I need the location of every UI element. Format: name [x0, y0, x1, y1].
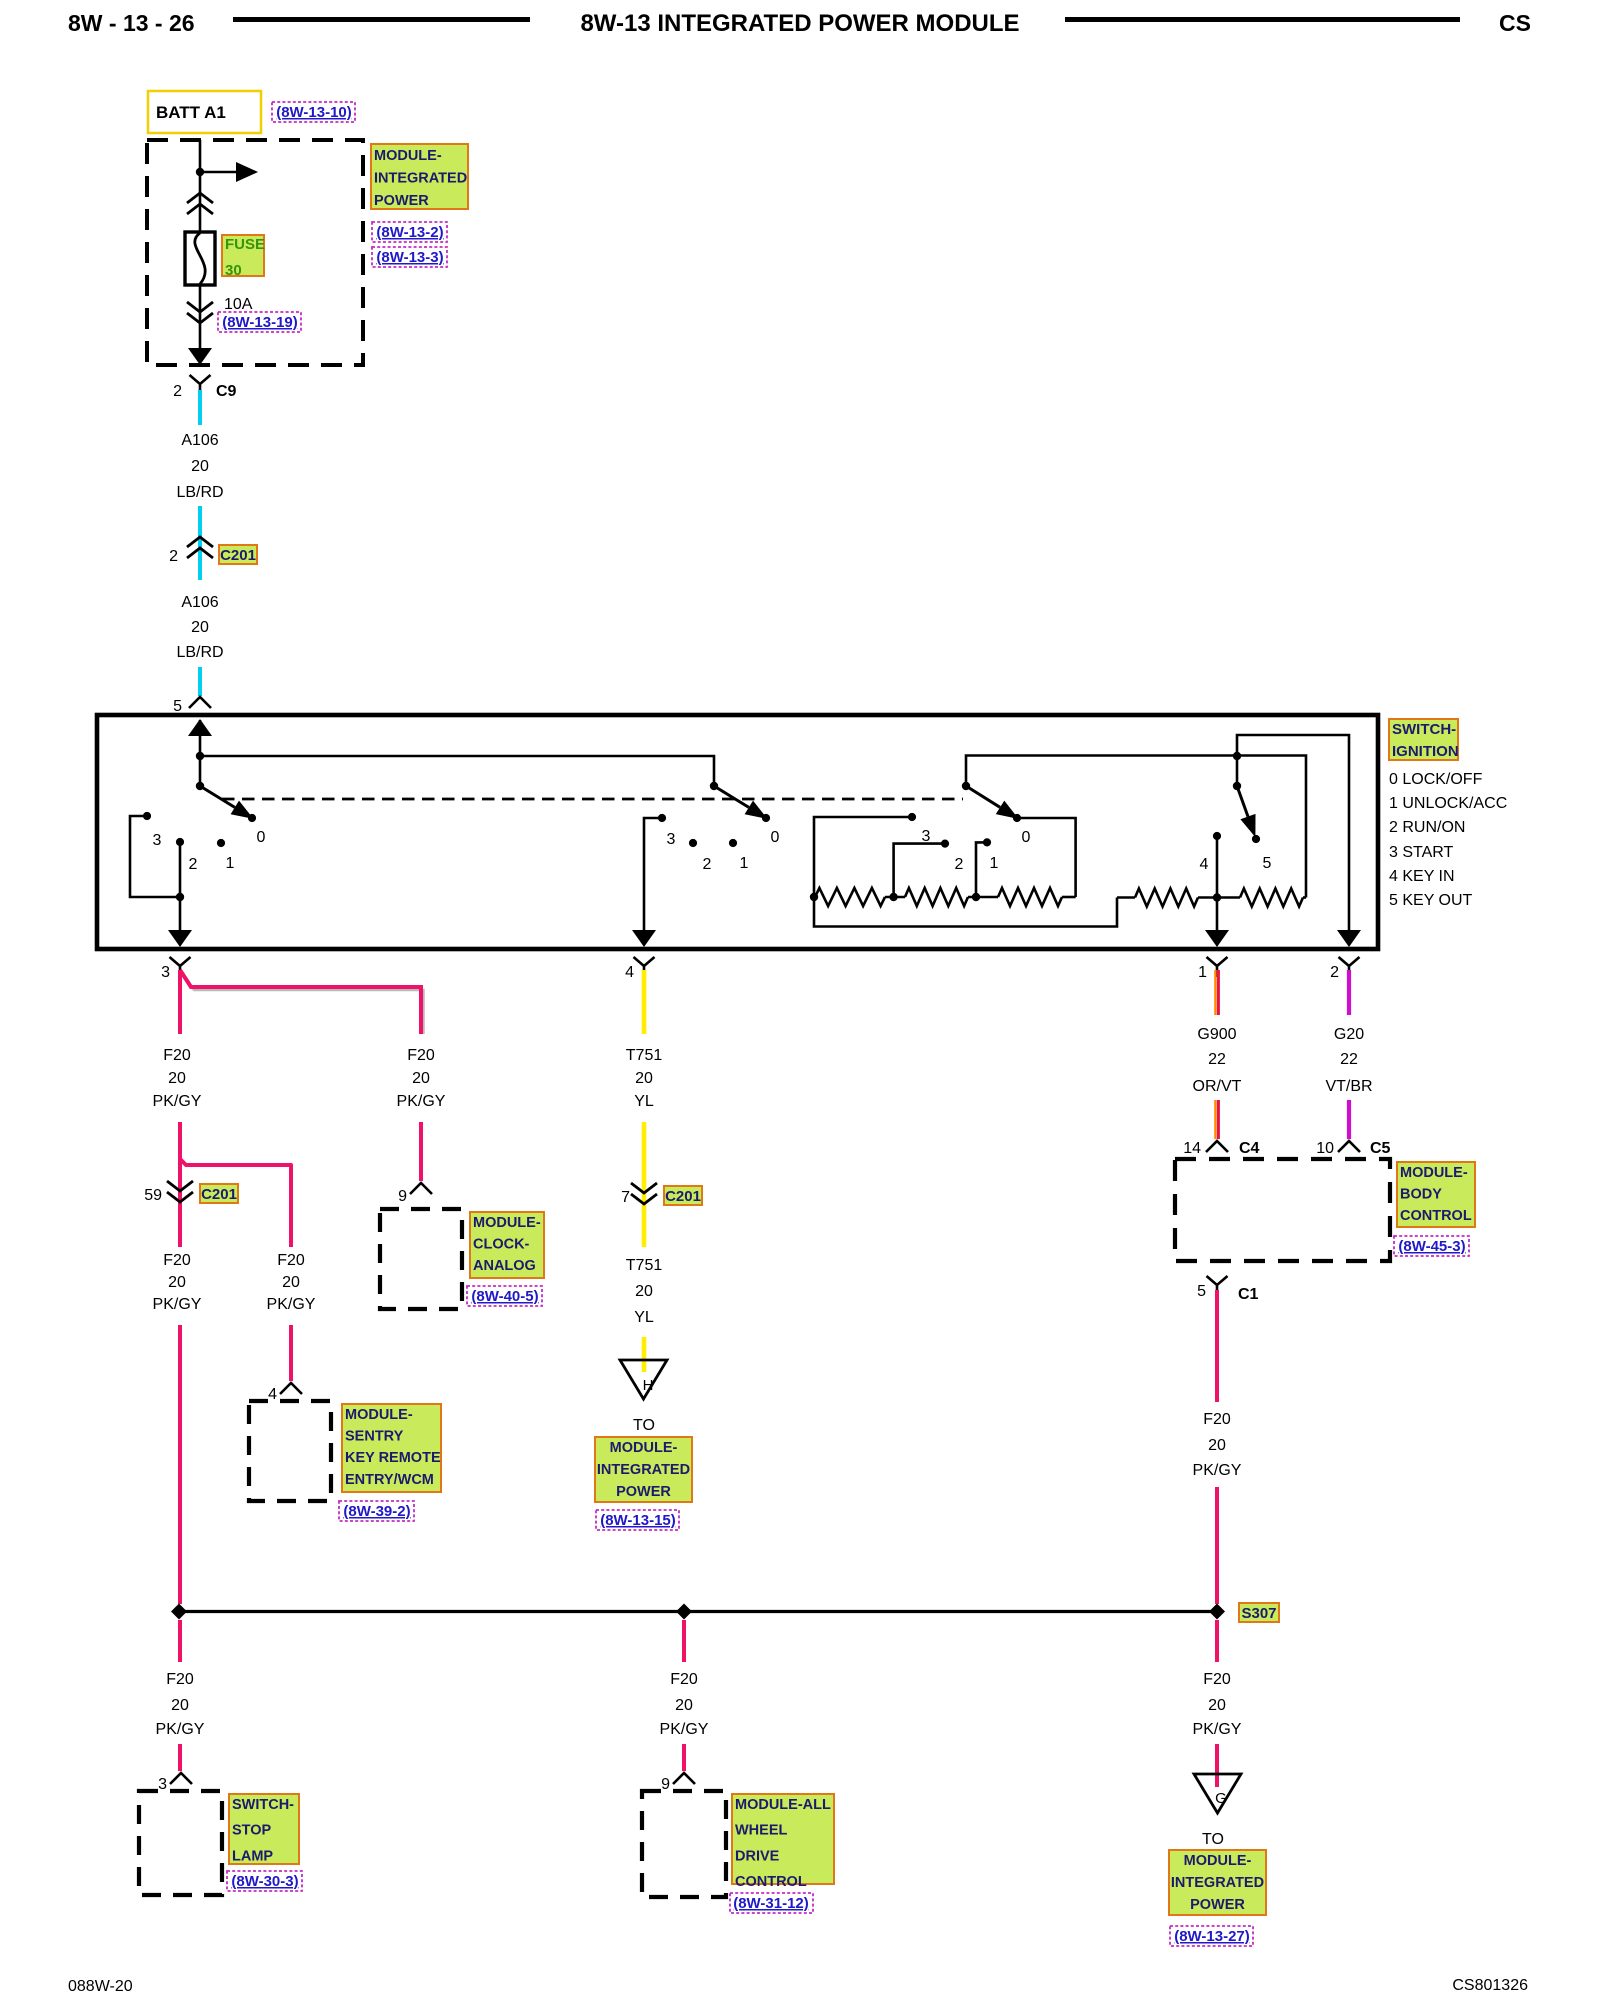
svg-text:PK/GY: PK/GY: [660, 1721, 709, 1738]
wafer 1 contact 3 wire: [130, 812, 180, 897]
node battery feed junction: [196, 168, 204, 176]
svg-text:20: 20: [191, 458, 209, 475]
wire battery feed inside IPM: [199, 140, 202, 365]
connector C5 pin 10: [1316, 1140, 1390, 1157]
connector switch pin 2: [1330, 957, 1359, 981]
svg-text:MODULE-: MODULE-: [1400, 1165, 1468, 1181]
in-line connector H triangle: [620, 1360, 667, 1399]
label SWITCH-IGNITION: [1389, 719, 1459, 760]
svg-text:1: 1: [1198, 964, 1207, 981]
reference 8W-13-19: [218, 312, 301, 332]
svg-text:WHEEL: WHEEL: [735, 1823, 788, 1839]
svg-text:(8W-13-15): (8W-13-15): [600, 1512, 676, 1529]
wire F20 long run to splice: [178, 1325, 182, 1604]
svg-text:2: 2: [173, 383, 182, 400]
svg-text:(8W-13-27): (8W-13-27): [1174, 1928, 1250, 1945]
svg-text:(8W-13-3): (8W-13-3): [376, 249, 443, 266]
svg-text:G: G: [1215, 1790, 1227, 1807]
svg-text:2: 2: [703, 856, 712, 873]
wire G20 VT/BR segment 1: [1347, 970, 1351, 1015]
svg-text:OR/VT: OR/VT: [1193, 1078, 1242, 1095]
svg-text:MODULE-ALL: MODULE-ALL: [735, 1797, 831, 1813]
label MODULE-BODY CONTROL: [1397, 1162, 1475, 1227]
module-sentry key remote entry dashed box: [249, 1401, 331, 1501]
svg-text:(8W-13-10): (8W-13-10): [276, 104, 352, 121]
svg-text:C1: C1: [1238, 1286, 1259, 1303]
wire G900 OR/VT segment 1: [1215, 970, 1218, 1015]
wire A106 LB/RD segment 4: [198, 667, 202, 696]
resistor key-in: [1117, 889, 1240, 907]
svg-text:C201: C201: [201, 1186, 237, 1203]
svg-text:2 RUN/ON: 2 RUN/ON: [1389, 819, 1465, 836]
resistor key-out: [1240, 889, 1306, 907]
legend ignition switch positions: [1389, 771, 1507, 909]
svg-text:9: 9: [398, 1188, 407, 1205]
svg-text:DRIVE: DRIVE: [735, 1848, 780, 1864]
svg-text:20: 20: [412, 1070, 430, 1087]
connector chevrons below fuse: [187, 302, 213, 323]
connector AWD module pin 9: [661, 1773, 695, 1793]
connector C201 pin 59: [144, 1181, 193, 1204]
connector C4 pin 14: [1183, 1140, 1259, 1157]
wafer 3 contact 2 wire: [894, 840, 950, 898]
wire T751 YL segment 1: [642, 970, 647, 1034]
svg-text:1: 1: [740, 855, 749, 872]
svg-text:BATT A1: BATT A1: [156, 103, 226, 122]
svg-text:F20: F20: [163, 1252, 191, 1269]
reference 8W-13-27: [1170, 1926, 1253, 1946]
wafer 3 position labels: [922, 828, 1031, 873]
svg-text:A106: A106: [181, 594, 218, 611]
svg-text:POWER: POWER: [374, 193, 429, 209]
svg-text:(8W-31-12): (8W-31-12): [733, 1895, 809, 1912]
svg-text:(8W-45-3): (8W-45-3): [1398, 1238, 1465, 1255]
header rule left: [233, 17, 530, 22]
wire F20 drop into G connector: [1215, 1744, 1219, 1787]
svg-text:20: 20: [635, 1070, 653, 1087]
svg-text:9: 9: [661, 1776, 670, 1793]
svg-text:SENTRY: SENTRY: [345, 1429, 404, 1445]
svg-text:3: 3: [667, 831, 676, 848]
svg-text:F20: F20: [1203, 1411, 1231, 1428]
svg-text:PK/GY: PK/GY: [267, 1296, 316, 1313]
svg-text:ANALOG: ANALOG: [473, 1258, 536, 1274]
svg-text:F20: F20: [1203, 1671, 1231, 1688]
connector switch pin 4: [625, 957, 654, 981]
svg-text:0 LOCK/OFF: 0 LOCK/OFF: [1389, 771, 1483, 788]
wire A106 LB/RD segment 1: [198, 390, 202, 425]
reference 8W-45-3: [1394, 1236, 1469, 1256]
wire G20 VT/BR segment 2: [1347, 1100, 1351, 1139]
wire F20 drop to stop lamp lower: [178, 1744, 182, 1771]
svg-text:G20: G20: [1334, 1026, 1364, 1043]
connector C201 pin 7: [621, 1183, 657, 1206]
node ladder junction R2-R3: [972, 893, 980, 901]
svg-text:TO: TO: [633, 1417, 655, 1434]
svg-text:MODULE-: MODULE-: [374, 148, 442, 164]
svg-text:4 KEY IN: 4 KEY IN: [1389, 868, 1455, 885]
connector C9 pin 2: [173, 375, 236, 400]
node key rail junction: [1213, 893, 1221, 901]
svg-text:CONTROL: CONTROL: [1400, 1208, 1472, 1224]
wire F20 PK/GY from BCM segment 1: [1215, 1290, 1219, 1402]
label connector C201 lower-left: [200, 1184, 238, 1203]
svg-text:3: 3: [922, 828, 931, 845]
svg-text:8W-13 INTEGRATED POWER MODULE: 8W-13 INTEGRATED POWER MODULE: [580, 10, 1019, 37]
svg-text:F20: F20: [166, 1671, 194, 1688]
reference 8W-13-3: [372, 247, 447, 267]
svg-text:3: 3: [161, 964, 170, 981]
svg-text:10: 10: [1316, 1140, 1334, 1157]
wafer 1 contact 1: [217, 839, 225, 847]
wire T751 YL into H connector: [642, 1337, 647, 1372]
svg-text:30: 30: [225, 262, 242, 279]
wafer 3 contact 3 wire: [814, 813, 916, 897]
svg-text:T751: T751: [626, 1257, 663, 1274]
label FUSE 30: [222, 235, 265, 279]
wafer 2 contact 3 wire to pin 4 exit: [632, 814, 666, 947]
key position labels: [1200, 855, 1272, 873]
wire F20 drop to G upper: [1215, 1620, 1219, 1662]
svg-text:20: 20: [191, 619, 209, 636]
svg-text:3 START: 3 START: [1389, 844, 1454, 861]
svg-text:SWITCH-: SWITCH-: [1392, 721, 1456, 738]
wire F20 sentry segment: [289, 1325, 293, 1381]
svg-text:PK/GY: PK/GY: [153, 1296, 202, 1313]
reference 8W-13-2: [372, 222, 447, 242]
svg-text:1: 1: [990, 855, 999, 872]
fuse block BATT A1 label box: [148, 91, 261, 133]
wire F20 branch to clock: [180, 970, 421, 1034]
connector C201 pin 2: [169, 537, 213, 565]
svg-text:SWITCH-: SWITCH-: [232, 1797, 294, 1813]
switch wafer 2 wiper at 0: [710, 782, 770, 822]
svg-text:F20: F20: [670, 1671, 698, 1688]
svg-text:14: 14: [1183, 1140, 1201, 1157]
svg-text:PK/GY: PK/GY: [153, 1093, 202, 1110]
label TO MODULE-INTEGRATED POWER: [595, 1437, 692, 1502]
wire F20 drop to AWD upper: [682, 1620, 686, 1662]
label SWITCH-STOP LAMP: [229, 1794, 299, 1864]
wire F20 drop to AWD lower: [682, 1744, 686, 1771]
svg-text:1: 1: [226, 855, 235, 872]
svg-text:PK/GY: PK/GY: [1193, 1462, 1242, 1479]
svg-text:1 UNLOCK/ACC: 1 UNLOCK/ACC: [1389, 795, 1507, 812]
svg-text:5 KEY OUT: 5 KEY OUT: [1389, 892, 1473, 909]
svg-text:YL: YL: [634, 1093, 654, 1110]
switch-stop lamp dashed box: [139, 1791, 222, 1895]
svg-text:PK/GY: PK/GY: [397, 1093, 446, 1110]
svg-text:YL: YL: [634, 1309, 654, 1326]
wafer 3 contact 0 wire: [1017, 818, 1076, 897]
svg-text:H: H: [643, 1377, 654, 1394]
node ladder junction R1-R2: [889, 893, 897, 901]
svg-text:ENTRY/WCM: ENTRY/WCM: [345, 1472, 434, 1488]
label TO MODULE-INTEGRATED POWER lower: [1169, 1850, 1266, 1915]
svg-text:20: 20: [168, 1274, 186, 1291]
svg-text:FUSE: FUSE: [225, 236, 265, 253]
svg-text:20: 20: [168, 1070, 186, 1087]
svg-text:BODY: BODY: [1400, 1187, 1442, 1203]
wire T751 YL segment 2: [642, 1122, 647, 1247]
svg-text:MODULE-: MODULE-: [610, 1440, 678, 1456]
svg-text:4: 4: [625, 964, 634, 981]
svg-text:PK/GY: PK/GY: [156, 1721, 205, 1738]
connector ignition switch pin 5: [173, 697, 211, 715]
wafer 2 contact 2: [689, 839, 697, 847]
svg-text:MODULE-: MODULE-: [345, 1407, 413, 1423]
node ladder left junction: [810, 893, 818, 901]
svg-text:C201: C201: [665, 1188, 701, 1205]
svg-text:(8W-13-2): (8W-13-2): [376, 224, 443, 241]
svg-text:2: 2: [955, 856, 964, 873]
svg-text:59: 59: [144, 1187, 162, 1204]
svg-text:G900: G900: [1197, 1026, 1236, 1043]
svg-text:C201: C201: [220, 547, 256, 564]
node feed junction A: [196, 752, 204, 760]
reference 8W-30-3: [227, 1871, 302, 1891]
reference 8W-40-5: [467, 1286, 542, 1306]
wafer 1 contact 2 wire: [176, 838, 184, 897]
svg-text:C9: C9: [216, 383, 237, 400]
svg-text:VT/BR: VT/BR: [1325, 1078, 1372, 1095]
svg-text:20: 20: [1208, 1697, 1226, 1714]
reference 8W-31-12: [730, 1893, 813, 1913]
label MODULE-CLOCK-ANALOG: [470, 1212, 544, 1278]
label connector C201 yellow: [664, 1186, 702, 1205]
reference 8W-13-10: [272, 102, 355, 122]
label MODULE-SENTRY KEY REMOTE ENTRY/WCM: [342, 1404, 441, 1492]
svg-text:10A: 10A: [224, 296, 253, 313]
svg-text:20: 20: [1208, 1437, 1226, 1454]
wire ladder bottom return rail: [814, 897, 1117, 927]
connector switch pin 3: [161, 957, 190, 981]
connector C1 pin 5: [1197, 1276, 1258, 1303]
arrow feed exits IPM: [188, 348, 212, 365]
wire A106 LB/RD segment 2: [198, 506, 202, 580]
svg-text:(8W-30-3): (8W-30-3): [231, 1873, 298, 1890]
svg-text:(8W-39-2): (8W-39-2): [343, 1503, 410, 1520]
svg-text:CLOCK-: CLOCK-: [473, 1237, 530, 1253]
switch-ignition outline box: [97, 715, 1378, 949]
fuse 30 symbol: [185, 232, 215, 285]
svg-text:(8W-13-19): (8W-13-19): [222, 314, 298, 331]
arrow feed entering switch: [188, 719, 212, 786]
svg-text:20: 20: [675, 1697, 693, 1714]
svg-text:5: 5: [173, 698, 182, 715]
svg-text:0: 0: [1022, 829, 1031, 846]
wire G900 OR/VT segment 2: [1215, 1100, 1218, 1139]
svg-text:20: 20: [635, 1283, 653, 1300]
wire feed rail wafer 3 to resistors: [966, 756, 1306, 898]
svg-text:088W-20: 088W-20: [68, 1978, 133, 1995]
reference 8W-13-15: [596, 1510, 679, 1530]
switch key wiper: [1233, 782, 1260, 843]
module-clock-analog dashed box: [380, 1209, 462, 1309]
svg-text:TO: TO: [1202, 1831, 1224, 1848]
svg-text:INTEGRATED: INTEGRATED: [374, 171, 467, 187]
svg-text:F20: F20: [277, 1252, 305, 1269]
svg-text:MODULE-: MODULE-: [1184, 1853, 1252, 1869]
wafer 2 contact 1: [729, 839, 737, 847]
svg-text:4: 4: [268, 1386, 277, 1403]
svg-text:5: 5: [1263, 855, 1272, 872]
node splice left: [171, 1604, 187, 1620]
wire branch arrow to other circuits: [200, 162, 258, 182]
svg-text:LB/RD: LB/RD: [176, 644, 223, 661]
svg-text:2: 2: [169, 548, 178, 565]
label connector C201: [219, 545, 257, 564]
svg-text:IGNITION: IGNITION: [1392, 743, 1459, 760]
node key-out tap junction: [1233, 752, 1241, 760]
svg-text:5: 5: [1197, 1283, 1206, 1300]
wire splice S307 bus: [179, 1610, 1217, 1613]
mechanical linkage dashed line: [222, 798, 963, 801]
switch wafer 3 wiper at 0: [962, 782, 1021, 822]
svg-text:CS: CS: [1499, 10, 1531, 36]
svg-text:T751: T751: [626, 1047, 663, 1064]
svg-text:3: 3: [153, 832, 162, 849]
svg-text:MODULE-: MODULE-: [473, 1215, 541, 1231]
svg-text:22: 22: [1340, 1051, 1358, 1068]
svg-text:CONTROL: CONTROL: [735, 1874, 807, 1890]
key-in contact 4 wire to pin 1 exit: [1205, 832, 1229, 947]
svg-text:KEY REMOTE: KEY REMOTE: [345, 1450, 441, 1466]
wafer 1 position labels: [153, 829, 266, 873]
svg-text:2: 2: [189, 856, 198, 873]
connector chevrons above fuse: [187, 193, 213, 214]
reference 8W-39-2: [339, 1501, 414, 1521]
connector sentry module pin 4: [268, 1383, 302, 1403]
svg-text:STOP: STOP: [232, 1823, 272, 1839]
node splice S307: [1209, 1604, 1225, 1620]
svg-text:S307: S307: [1241, 1605, 1276, 1622]
wire F20 branch shadow: [183, 973, 424, 1034]
svg-text:LB/RD: LB/RD: [176, 484, 223, 501]
wire F20 drop to stop lamp upper: [178, 1620, 182, 1662]
svg-text:POWER: POWER: [616, 1484, 671, 1500]
resistor ladder rail: [814, 888, 1076, 906]
svg-text:22: 22: [1208, 1051, 1226, 1068]
wafer 3 contact 1 wire: [976, 838, 991, 897]
svg-text:POWER: POWER: [1190, 1897, 1245, 1913]
svg-text:F20: F20: [163, 1047, 191, 1064]
wire F20 clock segment: [419, 1122, 423, 1181]
wire F20 PK/GY from BCM segment 2: [1215, 1487, 1219, 1604]
svg-text:C4: C4: [1239, 1140, 1260, 1157]
svg-text:C5: C5: [1370, 1140, 1391, 1157]
in-line connector G triangle: [1194, 1774, 1241, 1813]
svg-text:0: 0: [257, 829, 266, 846]
svg-text:3: 3: [158, 1776, 167, 1793]
wire feed rail to wafer 2: [200, 756, 714, 786]
wire key-out contact to pin 2 exit: [1237, 735, 1361, 947]
svg-text:PK/GY: PK/GY: [1193, 1721, 1242, 1738]
wire F20 main segment 1: [178, 970, 182, 1034]
label MODULE-ALL WHEEL DRIVE CONTROL: [732, 1794, 834, 1890]
svg-text:2: 2: [1330, 964, 1339, 981]
label splice S307: [1239, 1603, 1279, 1622]
connector switch pin 1: [1198, 957, 1227, 981]
node splice middle: [676, 1604, 692, 1620]
svg-text:20: 20: [171, 1697, 189, 1714]
wafer 2 position labels: [667, 829, 780, 873]
label MODULE-INTEGRATED POWER: [371, 144, 468, 209]
header rule right: [1065, 17, 1460, 22]
connector clock module pin 9: [398, 1183, 432, 1205]
svg-text:INTEGRATED: INTEGRATED: [1171, 1875, 1264, 1891]
svg-text:LAMP: LAMP: [232, 1848, 273, 1864]
svg-text:8W - 13 - 26: 8W - 13 - 26: [68, 10, 195, 36]
svg-text:20: 20: [282, 1274, 300, 1291]
svg-text:0: 0: [771, 829, 780, 846]
svg-text:4: 4: [1200, 856, 1209, 873]
module-integrated power dashed box: [147, 140, 363, 365]
node wafer 1 output junction: [176, 893, 184, 901]
switch wafer 1 wiper at 0: [196, 782, 256, 822]
wire F20 main segment 2: [178, 1122, 182, 1247]
module-all wheel drive control dashed box: [642, 1791, 726, 1897]
svg-text:(8W-40-5): (8W-40-5): [471, 1288, 538, 1305]
svg-text:A106: A106: [181, 432, 218, 449]
module-body control dashed box: [1175, 1159, 1390, 1261]
svg-text:INTEGRATED: INTEGRATED: [597, 1462, 690, 1478]
svg-text:F20: F20: [407, 1047, 435, 1064]
connector stop lamp pin 3: [158, 1773, 192, 1793]
wire F20 branch to sentry: [180, 1159, 291, 1247]
wire wafer 1 to pin 3 exit: [168, 897, 192, 947]
svg-text:7: 7: [621, 1189, 630, 1206]
svg-text:CS801326: CS801326: [1452, 1977, 1528, 1994]
